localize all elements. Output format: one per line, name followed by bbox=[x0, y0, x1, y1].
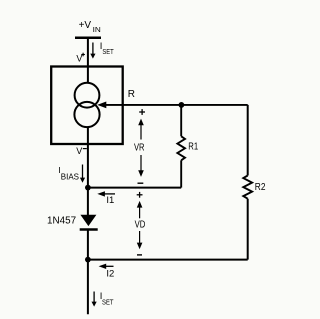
arrowhead into current source bbox=[97, 102, 106, 109]
label ISET (bottom) text bbox=[100, 291, 114, 307]
wire R output horizontal bbox=[105, 104, 248, 106]
dimension VD minus sign bbox=[137, 254, 142, 256]
resistor R1 zigzag bbox=[177, 136, 185, 160]
current source U1 box bbox=[51, 67, 123, 145]
svg-text:R: R bbox=[128, 89, 135, 100]
svg-text:V: V bbox=[76, 146, 82, 156]
label I1 arrow bbox=[97, 191, 115, 196]
current source circle (top) bbox=[75, 83, 100, 108]
node +VIN terminal label bbox=[79, 20, 101, 34]
label ISET (top) text bbox=[100, 41, 114, 56]
dimension VD up arrow bbox=[137, 201, 143, 218]
label IBIAS arrow bbox=[80, 165, 85, 183]
wire from +VIN terminal to current source bbox=[87, 38, 89, 84]
dimension VD plus sign bbox=[137, 192, 143, 198]
wire I1 horizontal bbox=[88, 187, 181, 189]
label ISET (top) arrow bbox=[90, 43, 95, 59]
label V- bbox=[76, 146, 87, 156]
dimension VR plus sign bbox=[139, 109, 145, 115]
svg-text:R1: R1 bbox=[188, 141, 198, 152]
svg-text:BIAS: BIAS bbox=[61, 171, 80, 181]
svg-text:+V: +V bbox=[79, 20, 92, 31]
wire R1 top lead bbox=[180, 105, 182, 136]
svg-text:I1: I1 bbox=[106, 195, 114, 206]
label V+ bbox=[76, 53, 85, 64]
svg-text:SET: SET bbox=[102, 49, 114, 56]
svg-text:SET: SET bbox=[102, 300, 114, 307]
dimension VR minus sign bbox=[138, 182, 144, 184]
+VIN terminal bar bbox=[75, 36, 101, 39]
wire right vertical lower (R2 bottom lead) bbox=[247, 199, 249, 260]
svg-text:VD: VD bbox=[135, 219, 146, 230]
resistor R2 zigzag bbox=[243, 176, 252, 199]
wire bottom horizontal bbox=[88, 259, 248, 261]
label I2 arrow bbox=[99, 264, 114, 269]
label ISET (bottom) arrow bbox=[92, 292, 97, 307]
junction node I1 bbox=[85, 185, 91, 191]
dimension VD down arrow bbox=[137, 231, 143, 249]
dimension VR down arrow bbox=[138, 155, 144, 177]
dimension VR up arrow bbox=[138, 119, 144, 140]
wire current source to diode bbox=[87, 127, 89, 215]
svg-text:I2: I2 bbox=[106, 268, 114, 279]
svg-text:V: V bbox=[76, 54, 82, 64]
svg-text:1N457: 1N457 bbox=[47, 216, 77, 227]
svg-text:VR: VR bbox=[134, 142, 145, 153]
wire diode to bottom junction bbox=[87, 230, 89, 314]
junction node I2 bbox=[85, 257, 91, 263]
wire R1 bottom lead bbox=[180, 160, 182, 187]
svg-text:R2: R2 bbox=[255, 182, 266, 193]
diode D1 cathode bar bbox=[80, 228, 98, 230]
svg-text:IN: IN bbox=[93, 25, 101, 34]
label IBIAS text bbox=[58, 165, 79, 181]
junction node at R1 top bbox=[179, 102, 185, 108]
wire right vertical upper (R2 top lead) bbox=[247, 105, 249, 176]
current source circle (bottom) bbox=[74, 102, 99, 127]
diode D1 triangle bbox=[80, 215, 96, 226]
